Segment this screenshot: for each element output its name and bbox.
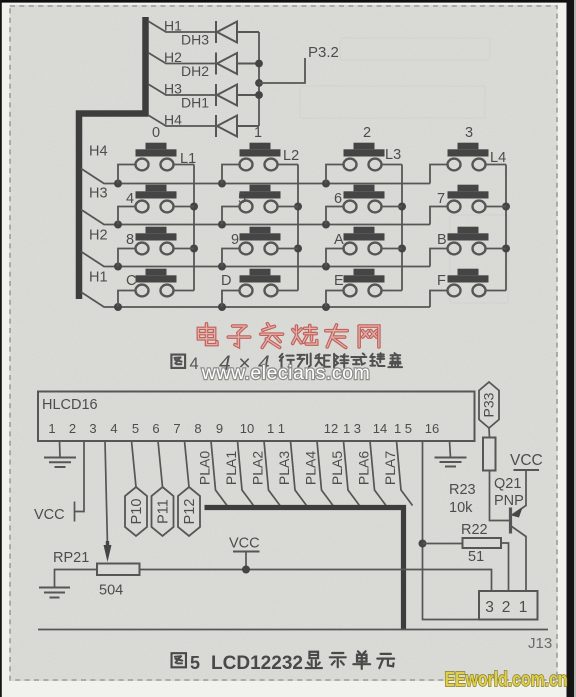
wire H1 row to diode [148,21,216,32]
svg-text:4: 4 [126,191,134,207]
wire key 9 left contact to row [222,249,240,267]
junction row H3 col 0 [114,221,122,229]
net flag PLA3 [291,441,307,506]
wire column L4 [505,165,507,291]
diode DH1 [216,84,259,106]
net flag PLA7 [397,441,413,506]
junction row H4 col 1 [218,180,226,188]
junction row H4 col 2 [322,180,330,188]
svg-text:1 1: 1 1 [267,421,285,436]
svg-text:6: 6 [152,421,159,436]
svg-text:www.elecians.com: www.elecians.com [201,362,370,384]
svg-text:6: 6 [334,191,342,207]
svg-text:PLA2: PLA2 [250,451,266,485]
net label P10 [132,441,137,487]
wire column L2 [297,165,299,291]
svg-text:H2: H2 [89,228,108,244]
svg-text:H1: H1 [164,18,182,34]
svg-text:PLA7: PLA7 [382,451,398,485]
potentiometer RP21 body [97,564,140,576]
svg-text:P33: P33 [481,392,497,417]
wiper arrow [104,545,112,562]
wire row H2 [81,252,430,267]
VCC pin 2 [75,441,85,512]
svg-text:VCC: VCC [34,507,65,523]
pushbutton key 3 [448,143,489,171]
wire key 8 right contact to column [173,248,194,250]
junction VCC tap [242,566,250,574]
svg-text:DH2: DH2 [181,63,209,79]
svg-text:PLA0: PLA0 [197,451,213,485]
svg-text:PNP: PNP [494,493,524,509]
svg-text:7: 7 [173,421,180,436]
net flag PLA0 [211,441,227,506]
pushbutton key 4 [136,185,177,213]
svg-text:1 5: 1 5 [394,421,412,436]
wire key 5 right contact to column [277,206,298,208]
wire key E left contact to row [326,291,344,308]
wire bottom rule [38,629,548,631]
svg-text:504: 504 [99,583,123,599]
svg-text:EEworld.com.cn: EEworld.com.cn [445,669,568,691]
junction row H3 col 1 [218,221,226,229]
wire key 4 left contact to row [118,207,136,225]
diode DH3 [216,21,259,43]
pushbutton key 1 [240,143,281,171]
wire key F left contact to row [430,291,448,308]
svg-text:8: 8 [126,232,134,248]
svg-text:DH3: DH3 [181,32,209,48]
svg-text:H4: H4 [164,112,182,128]
svg-text:14: 14 [373,421,387,436]
caption figure 4 title [171,352,402,375]
emitter arrow (PNP) [512,508,523,518]
net label P33 [479,382,499,428]
wire key 1 right contact to column [277,164,298,166]
resistor R23 [483,438,496,471]
svg-text:P10: P10 [129,499,145,525]
svg-text:E: E [334,273,344,289]
wire key B left contact to row [430,249,448,267]
svg-text:PLA4: PLA4 [303,451,319,485]
connector J13 [479,591,538,620]
svg-text:16: 16 [425,421,439,436]
svg-text:PLA3: PLA3 [276,451,292,485]
svg-text:P11: P11 [156,499,172,524]
pins 3 2 1 [485,599,527,616]
svg-text:0: 0 [152,125,160,141]
resistor R22 [463,538,502,548]
svg-text:L2: L2 [283,148,299,164]
junction column L1 row 1 [190,203,198,211]
ground pin 1 [44,441,76,467]
svg-text:51: 51 [468,549,484,565]
pushbutton key E [344,269,385,297]
svg-text:4: 4 [110,421,117,436]
junction column L4 row 2 [502,245,510,253]
pushbutton key F [448,269,489,297]
svg-text:1: 1 [519,599,528,616]
junction row H2 col 2 [322,263,330,271]
pushbutton key B [448,227,489,255]
svg-text:H2: H2 [164,49,182,65]
wire column L3 [401,165,403,291]
junction column L2 row 1 [294,203,302,211]
net flag PLA2 [264,441,280,506]
svg-text:5: 5 [132,421,139,436]
junction diode H2 [255,60,263,68]
wire key E right contact to column [381,290,402,292]
svg-text:4: 4 [190,355,199,373]
svg-text:10k: 10k [449,500,473,516]
junction pin15/R22 [419,540,427,548]
svg-text:P12: P12 [182,499,198,525]
wire key F right contact to column [485,290,506,292]
wire key 6 left contact to row [326,207,344,225]
wire key 0 right contact to column [173,164,194,166]
wire P33 to R23 [488,428,491,438]
svg-text:RP21: RP21 [53,550,89,566]
svg-text:Q21: Q21 [494,476,521,492]
diode DH2 [216,53,259,75]
watermark dianzifashaoyou wang (red) [198,324,378,348]
wire key A left contact to row [326,249,344,267]
junction row H3 col 2 [322,221,330,229]
junction column L1 row 2 [190,245,198,253]
wire to P3.2 [259,58,305,83]
wire key C left contact to row [118,291,136,308]
pin numbers 1-16 [48,421,439,436]
wire key 1 left contact to row [222,165,240,184]
junction row H1 col 2 [322,303,330,311]
wire key 8 left contact to row [118,249,136,267]
wire key B right contact to column [485,248,506,250]
wire key 5 left contact to row [222,207,240,225]
svg-text:HLCD16: HLCD16 [42,397,98,413]
svg-text:A: A [334,232,344,248]
svg-text:1: 1 [254,125,262,141]
svg-text:12: 12 [324,421,338,436]
svg-text:5: 5 [190,653,200,673]
wire diode common node [258,32,260,126]
svg-text:9: 9 [231,232,239,248]
svg-text:F: F [437,273,446,289]
pushbutton key 9 [240,227,281,255]
pushbutton key D [240,269,281,297]
net label P12 [185,441,190,487]
wire H3 row to diode [148,84,216,95]
wire H4 row to diode [148,115,216,126]
svg-text:2: 2 [69,421,76,436]
svg-text:R23: R23 [449,482,476,498]
svg-text:H4: H4 [89,144,108,160]
svg-text:3: 3 [89,421,96,436]
svg-text:1 3: 1 3 [343,421,361,436]
svg-text:B: B [437,232,447,248]
wire key 2 right contact to column [381,164,402,166]
wire row H3 [81,210,430,225]
junction row H4 col 0 [114,180,122,188]
wire RP21 left to ground [55,570,98,588]
wire key 3 left contact to row [430,165,448,184]
svg-text:3: 3 [485,599,494,616]
bus H1-H4 (thick) [79,17,146,299]
wire row H4 [81,169,430,184]
pushbutton key 8 [136,227,177,255]
bus PLA (thick) [205,508,404,630]
junction column L2 row 2 [294,245,302,253]
svg-text:VCC: VCC [510,452,543,469]
svg-text:R22: R22 [461,522,488,538]
svg-text:L3: L3 [385,147,401,163]
net flag PLA4 [317,441,333,506]
pushbutton key C [136,269,177,297]
svg-text:PLA5: PLA5 [329,451,345,485]
caption figure 5 title [172,651,395,674]
wire key 3 right contact to column [485,164,506,166]
wire key D left contact to row [222,291,240,308]
svg-text:P3.2: P3.2 [308,44,339,61]
wire pin 15 down [423,441,480,620]
junction P3.2 branch [255,79,263,87]
transistor Q21 base bar [509,508,512,534]
svg-text:H3: H3 [89,186,108,202]
ground pin 16 [435,441,467,467]
wire key 2 left contact to row [326,165,344,184]
wire R23 to Q21 base [490,471,510,521]
wire key 7 right contact to column [485,206,506,208]
svg-text:2: 2 [363,125,371,141]
pushbutton key A [344,227,385,255]
svg-text:2: 2 [502,599,511,616]
wire key 7 left contact to row [430,207,448,225]
wire key C right contact to column [173,290,194,292]
wire emitter [512,470,526,515]
svg-text:DH1: DH1 [181,95,209,111]
pushbutton key 0 [136,143,177,171]
junction diode H3 [255,91,263,99]
pushbutton key 7 [448,185,489,213]
svg-text:5: 5 [238,191,246,207]
diode DH4 [216,115,259,137]
pushbutton key 2 [344,143,385,171]
svg-text:H3: H3 [164,81,182,97]
wire key A right contact to column [381,248,402,250]
pushbutton key 6 [344,185,385,213]
svg-text:D: D [221,273,231,289]
svg-text:10: 10 [240,421,254,436]
ground RP21 [39,588,70,598]
pushbutton key 5 [240,185,281,213]
junction row H2 col 0 [114,263,122,271]
wire key 4 right contact to column [173,206,194,208]
wire key D right contact to column [277,290,298,292]
svg-text:1: 1 [48,421,55,436]
svg-text:H1: H1 [89,270,108,286]
svg-text:7: 7 [437,191,445,207]
net flag PLA1 [238,441,254,506]
svg-text:LCD12232: LCD12232 [211,653,303,674]
junction column L4 row 1 [502,203,510,211]
net flag PLA5 [344,441,360,506]
junction column L3 row 1 [398,203,406,211]
net flag PLA6 [370,441,386,506]
svg-text:VCC: VCC [229,536,260,552]
svg-text:PLA6: PLA6 [356,451,372,485]
wire RP21 right to connector pin3 [140,570,492,592]
svg-text:C: C [126,273,136,289]
wire key 9 right contact to column [277,248,298,250]
wire H2 row to diode [148,53,216,64]
svg-text:8: 8 [194,421,201,436]
svg-text:J13: J13 [528,635,552,652]
svg-text:9: 9 [216,421,223,436]
wire key 6 right contact to column [381,206,402,208]
junction row H2 col 1 [218,263,226,271]
junction row H1 col 0 [114,303,122,311]
net label P11 [158,441,163,487]
wire key 0 left contact to row [118,165,136,184]
wire R22 to connector pin2 [501,543,509,591]
wire junction to R22 [423,543,463,545]
junction row H1 col 1 [218,303,226,311]
svg-text:PLA1: PLA1 [223,451,239,485]
wire pin 3 to RP21 wiper [105,441,108,546]
junction column L3 row 2 [398,245,406,253]
wire column L1 [193,165,195,291]
svg-text:3: 3 [465,125,473,141]
wire row H1 [81,292,430,307]
IC U-HLCD16 body [38,392,475,442]
wire collector [511,526,526,591]
